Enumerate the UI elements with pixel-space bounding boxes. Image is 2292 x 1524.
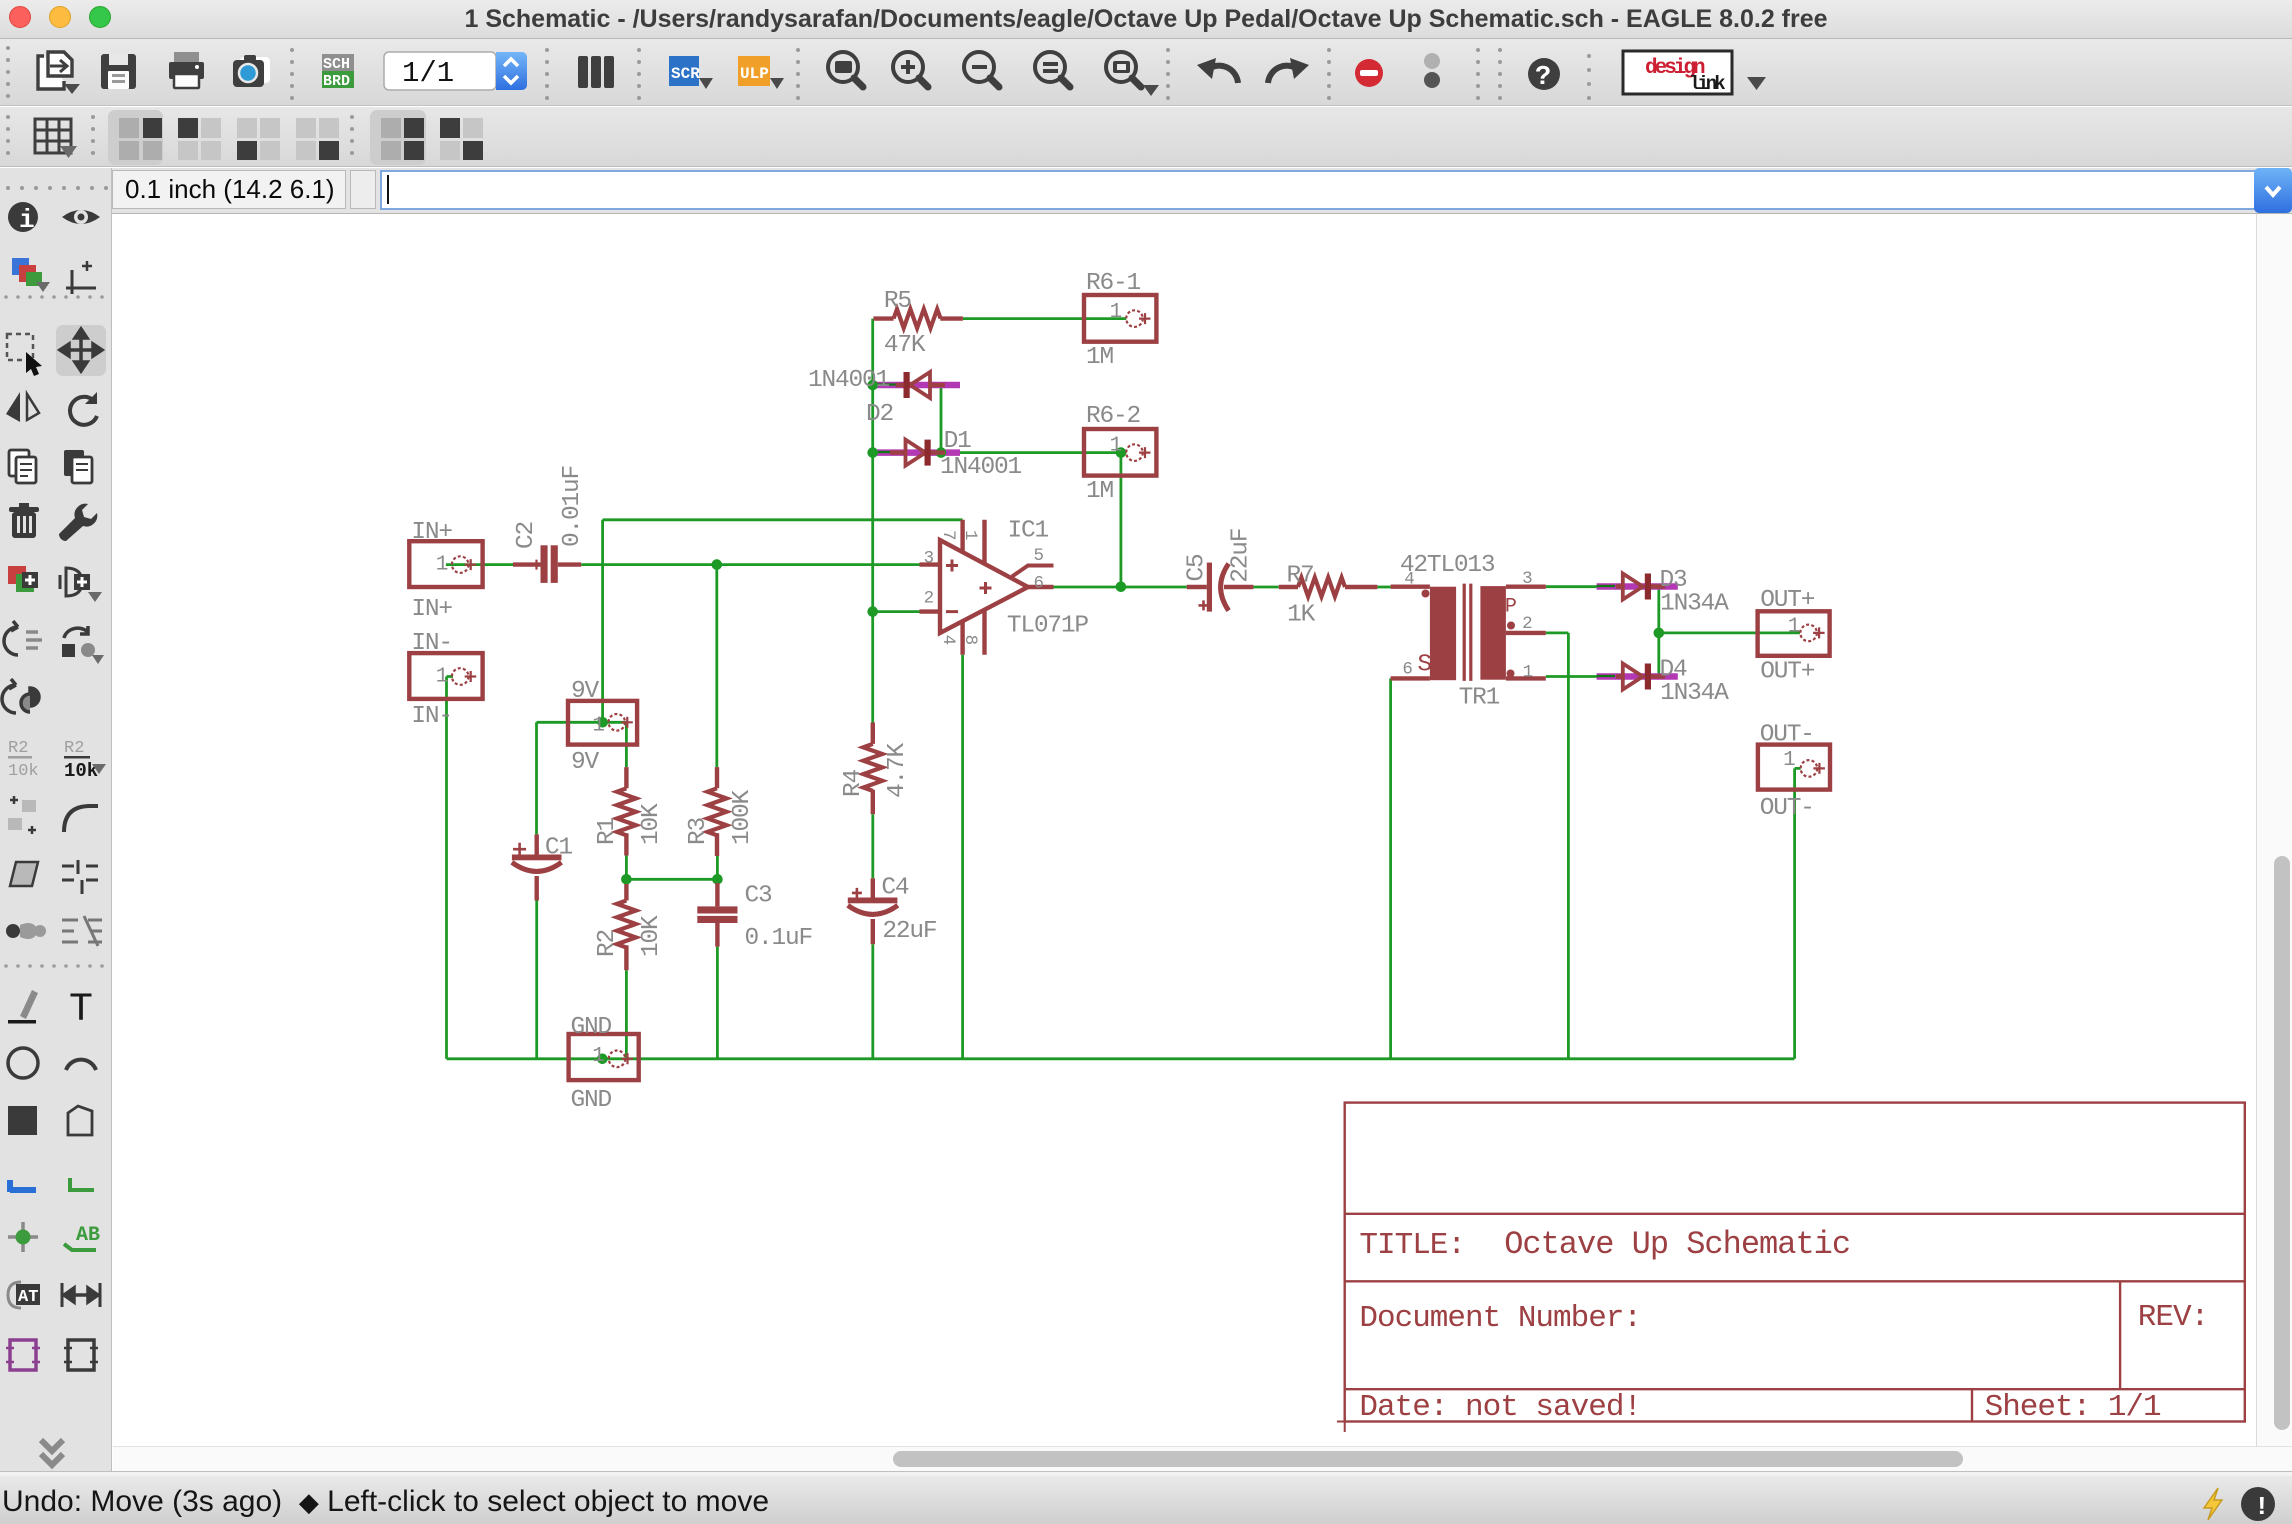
- svg-text:TL071P: TL071P: [1007, 613, 1089, 640]
- svg-text:R4: R4: [840, 769, 867, 797]
- svg-text:R2: R2: [594, 930, 621, 957]
- svg-text:1N34A: 1N34A: [1660, 590, 1729, 617]
- svg-text:R1: R1: [594, 817, 621, 845]
- svg-text:TR1: TR1: [1459, 684, 1500, 711]
- svg-text:1: 1: [592, 714, 604, 737]
- svg-text:0.01uF: 0.01uF: [559, 466, 586, 547]
- svg-text:10K: 10K: [638, 915, 665, 957]
- svg-text:R2: R2: [8, 739, 28, 758]
- svg-text:SCH: SCH: [323, 56, 350, 73]
- svg-text:i: i: [19, 205, 35, 235]
- svg-text:link: link: [1689, 73, 1725, 95]
- svg-text:TITLE:: TITLE:: [1359, 1228, 1465, 1263]
- svg-text:R5: R5: [884, 288, 912, 315]
- svg-text:R6-1: R6-1: [1086, 270, 1141, 297]
- svg-text:1N4001: 1N4001: [940, 454, 1022, 481]
- svg-text:OUT-: OUT-: [1760, 795, 1814, 822]
- svg-text:C1: C1: [545, 834, 573, 861]
- svg-text:OUT+: OUT+: [1760, 658, 1815, 685]
- svg-text:0.1uF: 0.1uF: [745, 925, 813, 952]
- svg-text:3: 3: [1522, 569, 1532, 589]
- svg-text:C5: C5: [1184, 554, 1211, 582]
- svg-text:1: 1: [436, 665, 448, 688]
- svg-text:C4: C4: [881, 874, 909, 901]
- svg-text:S: S: [1417, 651, 1432, 678]
- svg-text:1: 1: [1110, 301, 1122, 324]
- svg-text:10k: 10k: [64, 760, 98, 782]
- svg-text:4: 4: [1404, 570, 1414, 590]
- svg-text:22uF: 22uF: [882, 918, 936, 945]
- svg-text:3: 3: [924, 549, 934, 569]
- svg-text:1: 1: [1110, 434, 1122, 457]
- svg-text:R2: R2: [64, 739, 84, 758]
- svg-text:?: ?: [1535, 63, 1551, 93]
- svg-text:IN-: IN-: [411, 703, 452, 730]
- svg-text:IN+: IN+: [411, 596, 452, 623]
- svg-text:7: 7: [938, 530, 958, 540]
- svg-text:IN+: IN+: [411, 519, 452, 546]
- svg-text:1N4001: 1N4001: [808, 367, 890, 394]
- svg-text:9V: 9V: [571, 749, 600, 776]
- svg-text:REV:: REV:: [2138, 1300, 2208, 1335]
- svg-text:1: 1: [436, 554, 448, 577]
- svg-text:D2: D2: [866, 401, 893, 428]
- svg-text:4.7K: 4.7K: [884, 742, 911, 798]
- svg-text:42TL013: 42TL013: [1400, 552, 1495, 579]
- svg-text:5: 5: [1034, 546, 1044, 566]
- svg-text:R3: R3: [685, 817, 712, 845]
- svg-text:1M: 1M: [1086, 478, 1114, 505]
- svg-text:1: 1: [592, 1045, 604, 1068]
- svg-text:D1: D1: [944, 428, 972, 455]
- svg-text:Octave Up Schematic: Octave Up Schematic: [1504, 1226, 1850, 1263]
- svg-text:IN-: IN-: [411, 630, 452, 657]
- svg-text:IC1: IC1: [1008, 518, 1049, 545]
- svg-text:ULP: ULP: [740, 65, 769, 83]
- svg-text:1N34A: 1N34A: [1660, 680, 1729, 707]
- svg-text:4: 4: [938, 635, 958, 645]
- svg-text:Date: not saved!: Date: not saved!: [1359, 1390, 1641, 1425]
- svg-text:Sheet: 1/1: Sheet: 1/1: [1985, 1390, 2161, 1425]
- svg-text:P: P: [1505, 596, 1517, 619]
- svg-text:BRD: BRD: [323, 73, 350, 90]
- svg-text:47K: 47K: [884, 332, 926, 359]
- svg-text:C3: C3: [745, 883, 773, 910]
- svg-text:OUT+: OUT+: [1760, 587, 1815, 614]
- svg-text:OUT-: OUT-: [1760, 721, 1814, 748]
- svg-text:6: 6: [1034, 573, 1044, 593]
- svg-text:GND: GND: [571, 1087, 612, 1114]
- svg-text:6: 6: [1402, 659, 1412, 679]
- svg-text:AB: AB: [76, 1224, 100, 1247]
- svg-text:1K: 1K: [1287, 602, 1316, 629]
- svg-text:1: 1: [1783, 749, 1795, 772]
- svg-text:1: 1: [1788, 616, 1800, 639]
- svg-text:10k: 10k: [8, 762, 39, 781]
- svg-text:9V: 9V: [571, 678, 600, 705]
- svg-text:T: T: [69, 988, 93, 1033]
- svg-text:R7: R7: [1287, 563, 1314, 590]
- svg-text:10K: 10K: [638, 803, 665, 845]
- svg-text:1M: 1M: [1086, 344, 1114, 371]
- svg-text:!: !: [2254, 1492, 2270, 1522]
- svg-text:2: 2: [1522, 614, 1532, 634]
- svg-text:22uF: 22uF: [1227, 529, 1254, 583]
- svg-text:R6-2: R6-2: [1086, 403, 1140, 430]
- svg-text:Document Number:: Document Number:: [1359, 1301, 1641, 1336]
- svg-text:SCR: SCR: [671, 65, 700, 83]
- svg-text:AT: AT: [18, 1288, 38, 1307]
- svg-text:2: 2: [924, 589, 934, 609]
- svg-text:1: 1: [1523, 663, 1533, 683]
- svg-text:100K: 100K: [729, 789, 756, 845]
- svg-text:GND: GND: [571, 1014, 612, 1041]
- svg-text:1: 1: [960, 530, 980, 540]
- svg-text:C2: C2: [513, 522, 540, 549]
- svg-text:1/1: 1/1: [402, 57, 454, 90]
- svg-text:8: 8: [960, 635, 980, 645]
